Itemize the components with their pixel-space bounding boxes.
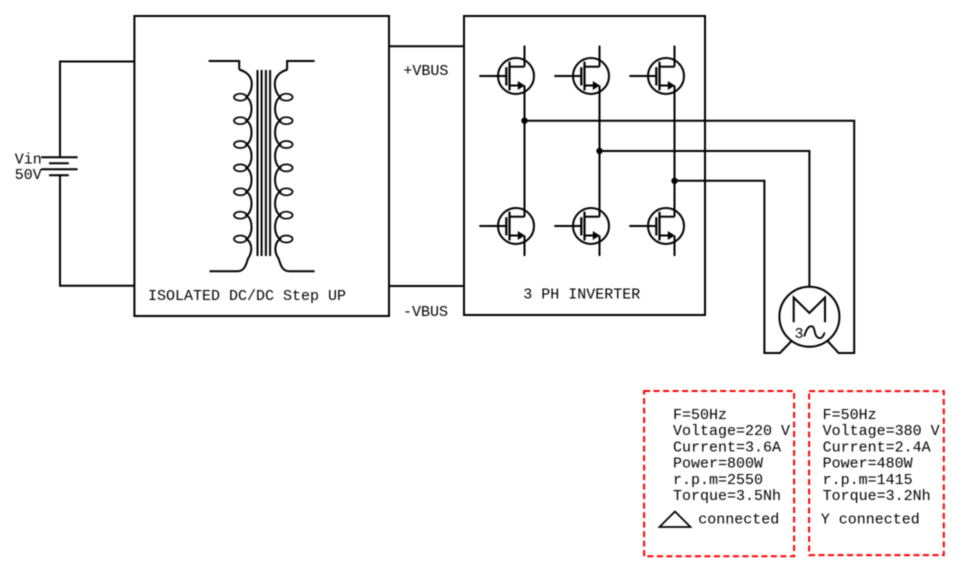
svg-text:r.p.m=2550: r.p.m=2550 <box>673 472 763 489</box>
svg-text:Power=480W: Power=480W <box>823 456 913 473</box>
svg-text:Voltage=220 V: Voltage=220 V <box>673 423 790 440</box>
svg-text:F=50Hz: F=50Hz <box>823 407 877 424</box>
svg-text:-VBUS: -VBUS <box>403 304 448 321</box>
svg-text:3 PH INVERTER: 3 PH INVERTER <box>523 287 640 304</box>
svg-text:Torque=3.5Nh: Torque=3.5Nh <box>673 488 781 505</box>
svg-text:Vin: Vin <box>15 152 42 169</box>
svg-text:Y connected: Y connected <box>821 512 920 529</box>
svg-text:Torque=3.2Nh: Torque=3.2Nh <box>823 488 931 505</box>
svg-text:Power=800W: Power=800W <box>673 456 763 473</box>
svg-text:r.p.m=1415: r.p.m=1415 <box>823 472 913 489</box>
svg-text:Voltage=380 V: Voltage=380 V <box>823 423 940 440</box>
svg-text:3: 3 <box>795 326 804 343</box>
svg-text:50V: 50V <box>15 167 42 184</box>
svg-text:+VBUS: +VBUS <box>403 63 448 80</box>
svg-text:Current=3.6A: Current=3.6A <box>673 439 781 456</box>
svg-text:F=50Hz: F=50Hz <box>673 407 727 424</box>
svg-text:connected: connected <box>698 512 779 529</box>
svg-text:ISOLATED DC/DC Step UP: ISOLATED DC/DC Step UP <box>148 288 346 305</box>
svg-text:Current=2.4A: Current=2.4A <box>823 439 931 456</box>
